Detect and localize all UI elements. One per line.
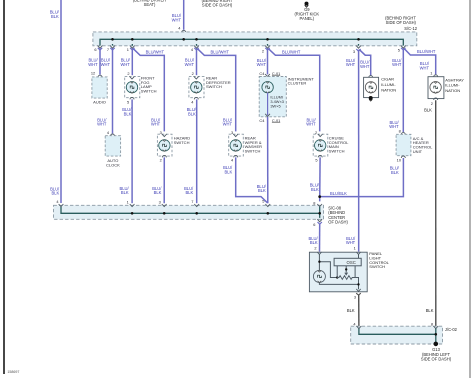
svg-text:158697: 158697	[7, 370, 19, 374]
ashtray illumination box	[428, 77, 444, 99]
svg-text:BLK: BLK	[310, 240, 318, 245]
svg-text:BLK: BLK	[391, 170, 399, 175]
terminal at wiper switch bottom	[234, 155, 238, 157]
svg-text:6: 6	[94, 47, 96, 52]
svg-text:4: 4	[191, 99, 194, 104]
terminal at defroster switch bottom	[194, 97, 198, 99]
svg-text:WHT: WHT	[151, 122, 161, 127]
svg-text:ILLUMI-: ILLUMI-	[445, 83, 460, 88]
svg-text:WHT: WHT	[101, 62, 111, 67]
wire BLU/WHT from S/C-12 pin 3 down to panel light control switch	[356, 49, 360, 51]
svg-text:1: 1	[127, 199, 129, 204]
hazard switch lamp	[159, 140, 170, 151]
wire BLU/BLK from cluster to splice S/C-08 pin 5	[267, 117, 269, 203]
svg-text:3: 3	[353, 49, 355, 54]
front fog lamp switch box	[125, 77, 140, 98]
svg-text:10: 10	[397, 158, 402, 163]
svg-text:C4: C4	[259, 118, 265, 123]
svg-text:SIDE OF DASH): SIDE OF DASH)	[386, 20, 417, 25]
svg-text:NATION: NATION	[381, 88, 396, 93]
svg-text:2: 2	[160, 158, 162, 163]
wire BLU/WHT from S/C-12 pin 4 to rear defroster switch	[194, 48, 198, 50]
wire BLU/WHT branch from pin 3 to cigar illumination	[359, 49, 371, 75]
wire BLK from panel switch to joint connector J/C-02 pin 4	[358, 295, 360, 327]
svg-text:BLK: BLK	[124, 111, 132, 116]
bus line inside J/C-02	[359, 328, 436, 334]
svg-text:BLK: BLK	[188, 111, 196, 116]
panel switch illumination lamp	[313, 270, 325, 282]
svg-text:5: 5	[315, 158, 317, 163]
ashtray illumination lamp	[430, 82, 441, 93]
svg-text:BLU/WHT: BLU/WHT	[211, 49, 230, 54]
svg-text:4: 4	[191, 47, 194, 52]
svg-text:SWITCH: SWITCH	[141, 89, 157, 94]
svg-text:1: 1	[354, 246, 356, 251]
svg-text:SEAT): SEAT)	[144, 2, 156, 7]
svg-text:SIDE OF DASH): SIDE OF DASH)	[421, 356, 452, 361]
terminal at ashtray illumination bottom	[434, 98, 438, 100]
terminal at cigar illumination	[369, 76, 373, 78]
svg-text:WHT: WHT	[172, 17, 182, 22]
terminal at auto clock connector	[111, 134, 115, 136]
panel light control switch box	[309, 252, 367, 292]
svg-text:2: 2	[262, 49, 264, 54]
svg-text:BLK: BLK	[51, 191, 59, 196]
svg-text:NATION: NATION	[445, 88, 460, 93]
svg-text:1: 1	[127, 47, 129, 52]
svg-text:BLU/BLK: BLU/BLK	[330, 191, 347, 196]
terminal at A/C heater control unit	[401, 133, 405, 135]
svg-text:BLK: BLK	[426, 308, 434, 313]
svg-text:2: 2	[431, 101, 433, 106]
wire BLU/BLK from hazard switch to splice S/C-08 pin 3	[163, 157, 165, 203]
page left border	[3, 0, 5, 374]
svg-text:CLUSTER: CLUSTER	[288, 81, 307, 86]
svg-text:4: 4	[56, 199, 59, 204]
terminal at ashtray illumination	[434, 75, 438, 77]
svg-text:C-01: C-01	[272, 71, 280, 76]
panel switch potentiometer legs	[336, 266, 338, 278]
svg-text:2: 2	[127, 71, 129, 76]
rear defroster switch box	[189, 77, 204, 98]
svg-text:4: 4	[353, 321, 356, 326]
page right border	[469, 0, 471, 378]
svg-text:SWITCH: SWITCH	[174, 140, 190, 145]
svg-text:SWITCH: SWITCH	[206, 84, 222, 89]
rear wiper washer switch lamp	[230, 140, 241, 151]
rear wiper washer switch box	[229, 134, 244, 156]
panel switch internal wiring	[318, 254, 320, 270]
svg-text:8: 8	[399, 129, 401, 134]
wire BLU/WHT from S/C-12 pin 1 to front fog lamp switch	[130, 48, 134, 50]
svg-text:8: 8	[313, 201, 315, 206]
svg-text:WHT: WHT	[97, 122, 107, 127]
rear defroster switch lamp	[191, 82, 202, 93]
svg-text:6: 6	[313, 222, 315, 227]
wire BLU/WHT branch from pin 2 to cruise control switch	[268, 48, 320, 131]
svg-text:8: 8	[431, 321, 433, 326]
instrument cluster illumination lamp	[262, 82, 273, 93]
svg-text:BLK: BLK	[424, 107, 432, 112]
svg-text:WHT: WHT	[88, 62, 98, 67]
svg-text:BLU/WHT: BLU/WHT	[146, 49, 165, 54]
svg-text:2: 2	[314, 246, 316, 251]
svg-text:CIGAR: CIGAR	[381, 77, 394, 82]
auto clock box	[105, 136, 120, 156]
panel switch OSC oscillator block	[334, 258, 361, 266]
wire BLU/BLK from wiper switch joining cluster wire at S/C-08 pin 5	[236, 157, 268, 203]
svg-text:WHT: WHT	[185, 62, 195, 67]
ground G9 (right kick panel)	[305, 2, 309, 6]
wire BLU/WHT feed from top into splice S/C-12 pin 4	[183, 0, 185, 30]
terminals on top edge of S/C-08	[59, 204, 64, 207]
svg-text:3: 3	[159, 199, 161, 204]
panel switch bottom wiring to pin 3	[319, 282, 358, 289]
instrument cluster box	[259, 77, 286, 117]
svg-text:SWITCH: SWITCH	[329, 149, 345, 154]
wire BLK from ashtray to joint connector J/C-02 pin 8	[435, 100, 437, 327]
cruise control main switch box	[313, 134, 328, 156]
svg-text:BLK: BLK	[51, 14, 59, 19]
svg-text:C-01: C-01	[272, 118, 280, 123]
splice connector S/C-12 band	[93, 32, 417, 46]
svg-text:BLU/WHT: BLU/WHT	[417, 49, 436, 54]
wire BLU/WHT branch from pin 1 to hazard switch	[133, 48, 164, 131]
cigar illumination box	[364, 77, 379, 97]
svg-text:PANEL): PANEL)	[300, 16, 315, 21]
svg-text:WHT: WHT	[306, 122, 316, 127]
terminals on top edge of J/C-02	[357, 326, 362, 329]
front fog lamp switch lamp	[126, 82, 137, 93]
svg-text:WHT: WHT	[389, 124, 399, 129]
svg-text:WHT: WHT	[360, 64, 370, 69]
svg-text:BLK: BLK	[121, 190, 129, 195]
svg-text:WHT: WHT	[346, 240, 356, 245]
terminal at cruise switch bottom	[318, 155, 322, 157]
splice connector S/C-08 band	[54, 205, 324, 219]
svg-text:S/C-12: S/C-12	[404, 26, 417, 31]
svg-text:SWITCH: SWITCH	[369, 264, 385, 269]
cigar illumination lamp	[365, 82, 376, 93]
terminal at hazard switch bottom	[162, 155, 166, 157]
wire BLU/WHT branch from pin 4 to rear wiper switch	[197, 48, 236, 131]
wire BLU/BLK from A/C unit to splice S/C-08 pin 8	[320, 158, 404, 197]
svg-text:ILLUMI-: ILLUMI-	[381, 82, 396, 87]
svg-text:5: 5	[127, 99, 129, 104]
svg-text:3: 3	[354, 294, 356, 299]
terminals on bottom edge of S/C-12	[98, 46, 103, 49]
svg-text:BLK: BLK	[154, 190, 162, 195]
ground G13 (behind left side of dash)	[434, 342, 439, 347]
svg-text:BLK: BLK	[347, 308, 355, 313]
wire BLU/WHT from S/C-12 pin 6 to audio	[98, 48, 102, 50]
svg-text:5: 5	[398, 47, 400, 52]
wire BLU/WHT from S/C-12 pin 2 to instrument cluster	[265, 48, 269, 50]
A/C heater control unit box	[396, 134, 411, 155]
svg-text:3W×5: 3W×5	[270, 103, 280, 108]
svg-text:1: 1	[430, 71, 432, 76]
terminal at fog switch bottom	[130, 97, 134, 99]
audio unit box	[92, 77, 107, 98]
wire BLU/BLK from fog switch to splice S/C-08 pin 1	[131, 99, 133, 203]
junction dots on S/C-12 bus	[111, 38, 114, 41]
bus line inside S/C-08	[61, 207, 320, 214]
case ground dot below cigar illumination	[369, 96, 373, 100]
svg-text:7: 7	[107, 47, 109, 52]
wire BLU/BLK from S/C-08 pin 6 to panel light control switch pin 2	[318, 222, 322, 224]
svg-text:SWITCH: SWITCH	[245, 149, 261, 154]
wire BLU/BLK from top left to splice S/C-08 pin 4	[60, 0, 62, 203]
wire inside cluster from lamp to bottom pin	[267, 93, 269, 116]
svg-text:J/C-02: J/C-02	[445, 327, 458, 332]
svg-text:OSC: OSC	[346, 260, 355, 265]
terminal at A/C heater control unit bottom	[401, 156, 405, 158]
svg-text:ASHTRAY: ASHTRAY	[445, 77, 464, 82]
terminal at audio connector	[98, 75, 102, 77]
svg-text:AUDIO: AUDIO	[93, 99, 106, 104]
wire BLU/WHT from S/C-12 pin 7 to auto clock	[110, 48, 114, 50]
svg-text:OF DASH): OF DASH)	[328, 219, 348, 224]
wire BLU/BLK from defroster switch to splice S/C-08 pin 7	[196, 99, 198, 203]
junction dots on S/C-08 bus	[131, 212, 134, 215]
svg-text:4: 4	[107, 130, 110, 135]
svg-text:WHT: WHT	[346, 62, 356, 67]
svg-text:BLK: BLK	[311, 187, 319, 192]
cruise control main switch lamp	[315, 140, 326, 151]
joint connector J/C-02 band	[351, 326, 443, 344]
svg-text:WHT: WHT	[392, 62, 402, 67]
wire BLU/WHT from S/C-12 pin 5 to A/C heater control unit	[401, 48, 405, 50]
terminal on bottom edge of S/C-08 pin 6	[317, 219, 322, 222]
panel switch rheostat resistor	[337, 276, 355, 280]
svg-text:BLU/WHT: BLU/WHT	[282, 49, 301, 54]
hazard switch box	[157, 134, 172, 156]
svg-text:2: 2	[192, 71, 194, 76]
junction of cruise and A/C wires	[318, 195, 321, 198]
svg-text:WHT: WHT	[257, 62, 267, 67]
svg-text:3: 3	[231, 130, 233, 135]
svg-text:WHT: WHT	[120, 62, 130, 67]
svg-text:BLK: BLK	[185, 190, 193, 195]
svg-text:12: 12	[91, 71, 95, 76]
bus line inside S/C-12	[100, 39, 403, 44]
wire BLU/BLK from cruise switch to splice S/C-08 pin 8	[319, 157, 321, 201]
wire BLU/WHT branch from pin 5 to ashtray illumination	[404, 48, 436, 74]
svg-text:7: 7	[191, 199, 193, 204]
svg-text:WHT: WHT	[420, 65, 430, 70]
svg-text:CLOCK: CLOCK	[106, 163, 120, 168]
terminal half-circle at S/C-12 feed	[182, 30, 186, 32]
svg-text:SIDE OF DASH): SIDE OF DASH)	[202, 2, 233, 7]
terminal fork below panel switch	[356, 293, 361, 295]
svg-text:4: 4	[178, 26, 181, 31]
svg-text:BLK: BLK	[224, 169, 232, 174]
svg-text:WHT: WHT	[223, 122, 233, 127]
svg-text:BLK: BLK	[258, 188, 266, 193]
svg-text:UNIT: UNIT	[413, 149, 423, 154]
svg-text:4: 4	[231, 158, 234, 163]
svg-text:C4: C4	[259, 71, 265, 76]
junction dot in J/C-02	[435, 333, 438, 336]
